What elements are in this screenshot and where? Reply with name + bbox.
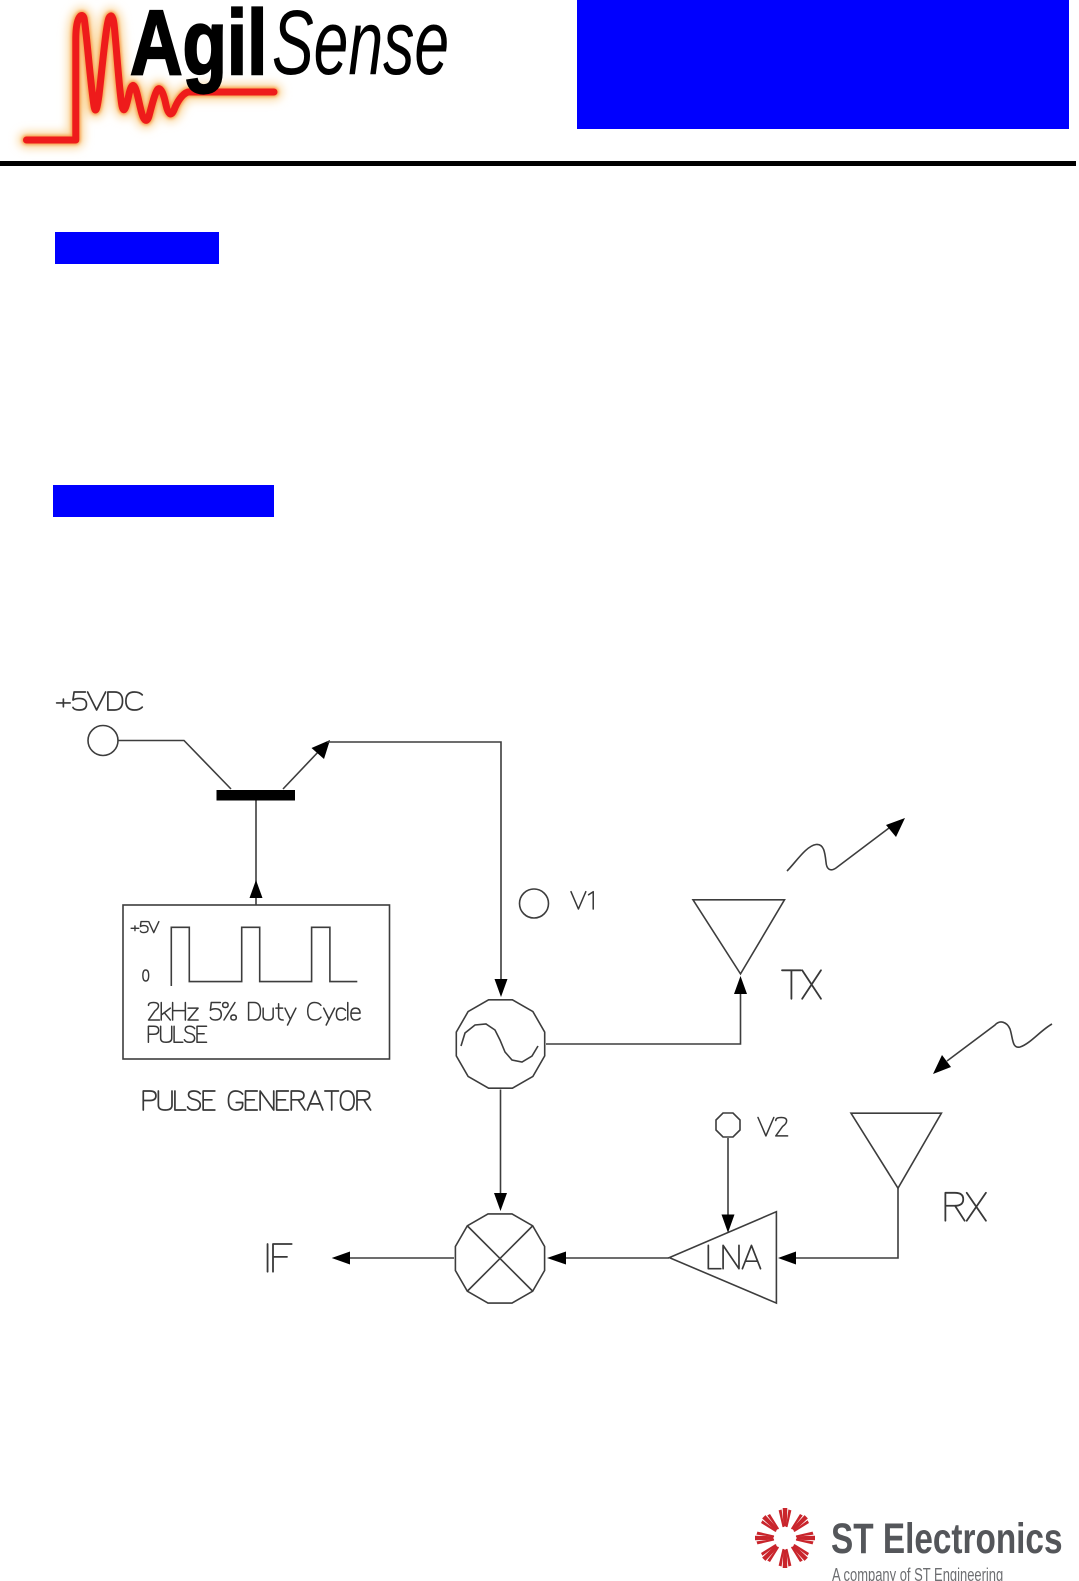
arrowhead into LNA right	[778, 1252, 796, 1265]
blue section bar 1	[55, 232, 219, 264]
TX antenna	[693, 900, 785, 974]
wire LNA to mixer	[566, 1257, 669, 1259]
arrowhead pointing up to transistor base	[250, 880, 263, 898]
wire mixer to IF	[350, 1257, 454, 1259]
blue section bar 2	[53, 485, 274, 517]
wire V2 to LNA	[727, 1138, 729, 1215]
transistor Q1 emitter wire	[283, 750, 320, 789]
pulse generator waveform	[171, 927, 357, 986]
wire collector to V1 node column	[327, 742, 501, 979]
node V1	[520, 889, 549, 918]
TX label	[782, 970, 821, 999]
arrowhead into TX antenna	[734, 976, 747, 994]
mixer U2 X	[468, 1226, 533, 1291]
arrowhead into mixer top	[494, 1193, 507, 1211]
transistor Q1 bar	[217, 790, 296, 801]
ST Engineering tagline	[832, 1565, 1003, 1581]
arrowhead into oscillator	[495, 979, 508, 997]
pulse generator box	[123, 905, 390, 1059]
AgilSense logo text	[130, 0, 267, 96]
TX radiated wave arrowhead	[886, 818, 905, 837]
RX incoming wave arrowhead	[933, 1055, 951, 1074]
node V1 label	[571, 892, 593, 909]
LNA label	[708, 1245, 760, 1268]
ST Electronics starburst logo	[749, 1502, 824, 1581]
oscillator U1 sine wave	[461, 1024, 538, 1062]
RX antenna	[851, 1113, 941, 1188]
node V2 label	[758, 1118, 788, 1136]
transistor Q1 emitter arrowhead	[312, 740, 331, 759]
RX label	[945, 1193, 986, 1221]
pulse generator +5V label	[131, 922, 159, 933]
IF arrowhead	[332, 1252, 350, 1265]
PULSE GENERATOR caption	[143, 1091, 370, 1110]
pulse generator 2kHz 5% Duty Cycle label	[149, 1003, 361, 1026]
TX radiated wave	[787, 828, 889, 871]
black rule	[0, 161, 1076, 166]
terminal +5VDC	[88, 726, 118, 756]
pulse generator PULSE label	[148, 1026, 206, 1042]
blue header box	[577, 0, 1069, 129]
ST Electronics wordmark	[831, 1515, 1063, 1564]
mixer U2 circle	[455, 1214, 544, 1303]
oscillator U1 circle	[456, 1000, 544, 1088]
wire transistor base down to pulse generator	[255, 801, 257, 906]
node +5VDC label	[57, 692, 143, 710]
wire +5VDC to transistor base-bar	[118, 741, 231, 790]
wire RX antenna to LNA	[796, 1188, 898, 1258]
AgilSense logo red waveform	[0, 0, 470, 170]
wire oscillator to TX antenna	[546, 994, 741, 1044]
RX incoming wave	[947, 1022, 1052, 1061]
node V2	[716, 1113, 740, 1137]
LNA U3 triangle	[669, 1212, 776, 1303]
pulse generator 0 label	[143, 970, 149, 981]
arrowhead into mixer right	[547, 1252, 566, 1265]
wire oscillator down to mixer	[500, 1090, 502, 1195]
IF label	[268, 1244, 292, 1272]
arrowhead into LNA top	[722, 1215, 735, 1233]
